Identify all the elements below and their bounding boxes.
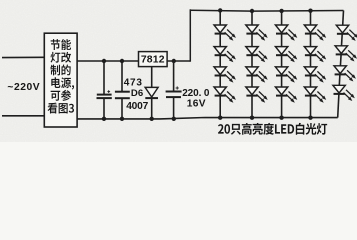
node: C2 bottom junction [120, 117, 124, 121]
LED L3 [214, 67, 236, 83]
LED L14 [304, 47, 326, 63]
LED L2 [214, 47, 236, 63]
diode D6 1N4007 [145, 87, 158, 119]
LED L5 [246, 25, 268, 41]
node: diode bottom junction [150, 117, 154, 121]
LED L17 [336, 25, 357, 41]
LED L9 [275, 25, 297, 41]
LED L1 [214, 25, 236, 41]
LED column 1 [214, 8, 236, 120]
svg-text:4007: 4007 [126, 101, 148, 112]
wire: 7812 ground pin [151, 67, 153, 88]
svg-text:7812: 7812 [141, 55, 165, 66]
svg-text:~220V: ~220V [7, 82, 40, 93]
LED L10 [275, 47, 297, 63]
LED L16 [304, 87, 326, 103]
LED column 3 [275, 9, 297, 120]
LED column 2 [246, 9, 268, 120]
LED L6 [246, 47, 268, 63]
LED L18 [335, 46, 357, 62]
node: C1 bottom junction [102, 117, 106, 121]
node: 7812 output junction [172, 59, 176, 63]
power supply box label (Chinese) [48, 39, 75, 113]
wire: bottom rail [77, 118, 338, 119]
svg-text:D6: D6 [131, 88, 143, 99]
svg-text:16V: 16V [187, 99, 206, 110]
node: C3 bottom junction [172, 117, 176, 121]
svg-text:220. 0: 220. 0 [182, 88, 210, 99]
wire: 7812 output to junction [167, 60, 190, 62]
LED column 5 (right edge) [333, 11, 357, 118]
capacitor C3 electrolytic 220uF/16V [166, 61, 182, 119]
LED L19 [334, 66, 356, 82]
LED L13 [304, 25, 326, 41]
LED column 4 [304, 9, 326, 120]
capacitor C1 [97, 61, 112, 119]
wire: AC neutral input bottom-left [2, 115, 44, 117]
LED L20 [333, 85, 355, 101]
wire: output riser to LED top rail [189, 9, 191, 61]
wire: DC+ rail from box to 7812 input [77, 60, 138, 62]
wire: AC live input top-left [2, 56, 44, 58]
LED L4 [214, 87, 236, 103]
LED L11 [275, 67, 297, 83]
svg-text:473: 473 [124, 77, 143, 88]
label: 20只高亮度LED白光灯 [218, 123, 327, 135]
wire: LED array top rail [190, 9, 343, 12]
LED L7 [246, 67, 268, 83]
capacitor C2 0.047uF [115, 61, 130, 119]
power supply box [44, 33, 77, 127]
node: C1 top junction [102, 59, 106, 63]
LED L15 [304, 67, 326, 83]
LED L8 [246, 87, 268, 103]
LED L12 [275, 87, 297, 103]
node: C2 top junction [120, 59, 124, 63]
regulator U1 7812 [139, 52, 168, 67]
